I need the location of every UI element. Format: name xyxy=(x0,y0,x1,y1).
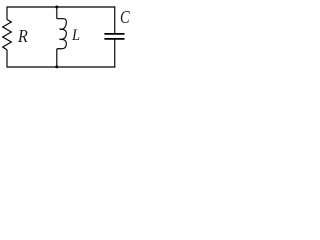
wire left top stub xyxy=(6,7,8,20)
wire top xyxy=(7,6,115,8)
wire middle top stub xyxy=(56,7,58,19)
resistor R xyxy=(3,20,12,50)
wire right bottom stub xyxy=(114,40,116,68)
wire right top stub xyxy=(114,7,116,34)
wire middle bottom stub xyxy=(56,49,58,67)
wire bottom xyxy=(7,66,115,68)
capacitor C top plate xyxy=(104,33,124,35)
label R xyxy=(18,27,28,45)
junction dot bottom xyxy=(55,65,58,68)
inductor L xyxy=(57,19,67,49)
junction dot top xyxy=(55,6,58,9)
capacitor C bottom plate xyxy=(104,38,124,40)
wire left bottom stub xyxy=(6,50,8,68)
label L xyxy=(72,28,80,44)
label C xyxy=(120,8,130,26)
